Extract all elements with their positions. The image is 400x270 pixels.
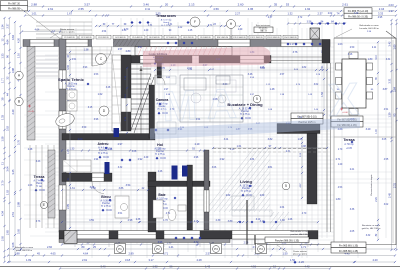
bath doors bbox=[172, 166, 178, 180]
svg-text:4.20: 4.20 bbox=[372, 258, 378, 262]
grid bubble living bbox=[253, 95, 261, 103]
svg-text:3.81: 3.81 bbox=[268, 167, 273, 169]
svg-text:1.41: 1.41 bbox=[168, 245, 174, 249]
svg-text:2.03: 2.03 bbox=[388, 3, 394, 7]
svg-text:M: M bbox=[161, 81, 198, 130]
west retaining wall bbox=[27, 47, 35, 141]
svg-text:4.51: 4.51 bbox=[72, 59, 77, 61]
svg-text:3.16: 3.16 bbox=[348, 54, 353, 56]
terasa mid line bbox=[334, 136, 396, 138]
svg-text:3.76: 3.76 bbox=[17, 139, 21, 145]
svg-text:2.65: 2.65 bbox=[6, 229, 10, 235]
svg-text:P2: P2 bbox=[156, 247, 160, 251]
svg-text:4.96: 4.96 bbox=[194, 157, 199, 159]
svg-text:3.08: 3.08 bbox=[132, 151, 137, 153]
svg-text:A: A bbox=[205, 79, 238, 128]
svg-text:±0.00: ±0.00 bbox=[39, 190, 45, 192]
right dim chain 2 bbox=[396, 20, 398, 250]
living north wall bbox=[277, 124, 320, 134]
svg-text:3.96: 3.96 bbox=[158, 241, 163, 244]
svg-text:987.9: 987.9 bbox=[260, 29, 267, 32]
svg-text:H: 2.75 m: H: 2.75 m bbox=[98, 153, 108, 155]
finish box top left 1 bbox=[1, 1, 28, 6]
svg-text:2.09: 2.09 bbox=[260, 195, 265, 197]
antreu door leaf bbox=[105, 162, 110, 174]
svg-text:1.32: 1.32 bbox=[287, 12, 293, 16]
watermark red stripe bbox=[143, 47, 271, 68]
svg-text:2.88: 2.88 bbox=[31, 3, 37, 7]
svg-text:3.33: 3.33 bbox=[378, 12, 384, 16]
svg-text:4.98: 4.98 bbox=[128, 219, 133, 222]
svg-text:2.88: 2.88 bbox=[14, 252, 20, 256]
tech-room east wall bbox=[121, 55, 131, 131]
svg-text:Birou: Birou bbox=[101, 195, 110, 199]
svg-text:2.19: 2.19 bbox=[195, 143, 200, 146]
column tab P3 bbox=[211, 244, 222, 254]
terasa glass wall bbox=[326, 63, 328, 232]
south inner dim chain bbox=[62, 221, 318, 223]
antreu closet bbox=[63, 160, 91, 172]
svg-text:F: F bbox=[194, 20, 196, 24]
camara shelves bbox=[157, 76, 176, 84]
office desk bbox=[115, 196, 129, 218]
svg-text:2.00: 2.00 bbox=[78, 138, 83, 141]
svg-text:4.15: 4.15 bbox=[194, 221, 199, 223]
svg-text:Fin 986.95: Fin 986.95 bbox=[8, 8, 20, 11]
svg-text:5: 5 bbox=[256, 97, 258, 101]
svg-text:2.51: 2.51 bbox=[11, 211, 15, 217]
svg-text:4.28: 4.28 bbox=[196, 258, 202, 262]
svg-text:1.20: 1.20 bbox=[338, 164, 343, 166]
grid bubble H top bbox=[230, 28, 232, 40]
svg-text:2.29: 2.29 bbox=[376, 197, 378, 202]
svg-text:2.61: 2.61 bbox=[48, 7, 54, 11]
svg-text:1.05: 1.05 bbox=[298, 138, 303, 141]
svg-text:H: 2.75 m: H: 2.75 m bbox=[241, 191, 251, 193]
svg-text:2.71: 2.71 bbox=[336, 158, 341, 161]
finish box top r bbox=[344, 8, 372, 13]
bottom secondary dim line bbox=[62, 244, 318, 246]
svg-text:3.89: 3.89 bbox=[228, 220, 233, 223]
svg-text:3.32: 3.32 bbox=[118, 167, 123, 169]
svg-text:-1.20: -1.20 bbox=[298, 260, 304, 264]
svg-text:1.50: 1.50 bbox=[321, 92, 324, 97]
svg-text:2.92: 2.92 bbox=[138, 158, 143, 161]
svg-text:2.82: 2.82 bbox=[226, 195, 231, 197]
kitchen dim chain bbox=[155, 69, 327, 71]
svg-text:Living: Living bbox=[240, 179, 252, 184]
east inner dim chain bbox=[301, 138, 303, 198]
svg-text:1.25: 1.25 bbox=[108, 149, 113, 151]
svg-text:3.05: 3.05 bbox=[382, 139, 387, 141]
top dimension chain 1 bbox=[25, 6, 396, 8]
svg-text:3.82: 3.82 bbox=[268, 138, 273, 141]
svg-text:3.29: 3.29 bbox=[366, 128, 371, 131]
svg-text:4.55: 4.55 bbox=[384, 159, 389, 161]
camara west wall bbox=[149, 85, 155, 138]
svg-text:3.48: 3.48 bbox=[106, 87, 111, 89]
svg-text:A: 7.44 mp: A: 7.44 mp bbox=[33, 179, 45, 182]
grid bubble A left bbox=[15, 71, 23, 79]
red level marks bbox=[28, 105, 343, 111]
svg-text:53: 53 bbox=[286, 3, 290, 7]
duct shaft bbox=[112, 55, 121, 131]
svg-text:3.02: 3.02 bbox=[384, 204, 389, 206]
svg-text:2.38: 2.38 bbox=[136, 219, 141, 221]
living sofa bbox=[232, 196, 254, 210]
svg-text:3.93: 3.93 bbox=[83, 67, 88, 69]
svg-text:4.64: 4.64 bbox=[35, 29, 40, 32]
svg-text:F11 1.100/1.20: F11 1.100/1.20 bbox=[234, 37, 246, 39]
east wall living bbox=[307, 124, 317, 205]
svg-text:F13 1.120/1.20: F13 1.120/1.20 bbox=[267, 37, 279, 39]
antreu south wall bbox=[62, 173, 112, 182]
svg-text:+0.45: +0.45 bbox=[28, 111, 34, 113]
svg-text:P3: P3 bbox=[214, 247, 218, 251]
stair dim chain bbox=[126, 68, 128, 133]
construction extension line lattice bbox=[61, 28, 63, 244]
svg-text:Perete exterior: Perete exterior bbox=[60, 28, 75, 31]
svg-text:Terasa: Terasa bbox=[34, 175, 45, 179]
column tab P1 bbox=[115, 244, 126, 254]
svg-text:Antreu: Antreu bbox=[98, 142, 109, 146]
svg-text:F6 1.50/1.20: F6 1.50/1.20 bbox=[149, 37, 159, 39]
washing machines bbox=[67, 90, 77, 100]
antreu door arc bbox=[92, 182, 104, 194]
leader diagonal topleft bbox=[20, 8, 62, 40]
svg-text:Parchet: Parchet bbox=[102, 202, 110, 205]
svg-text:1.77: 1.77 bbox=[1, 77, 5, 83]
office east wall bbox=[148, 172, 156, 232]
office dim chain bbox=[62, 189, 148, 191]
svg-text:3.62: 3.62 bbox=[314, 84, 319, 86]
svg-text:2.61: 2.61 bbox=[342, 3, 348, 7]
right dim chain 1 bbox=[391, 20, 393, 250]
svg-text:2.27: 2.27 bbox=[235, 12, 241, 16]
svg-text:1.94: 1.94 bbox=[94, 159, 99, 161]
svg-text:Descendente cu trepte: Descendente cu trepte bbox=[370, 174, 373, 196]
kitchen island bbox=[180, 75, 243, 122]
svg-text:Balustrada cu rama: Balustrada cu rama bbox=[15, 246, 34, 249]
svg-text:3.87: 3.87 bbox=[383, 88, 388, 91]
svg-text:2.29: 2.29 bbox=[156, 148, 161, 151]
staircase bbox=[131, 64, 154, 136]
finish box terasa 1 bbox=[331, 116, 363, 122]
svg-text:Balustrada cu rama: Balustrada cu rama bbox=[291, 230, 311, 233]
svg-text:1.70: 1.70 bbox=[163, 219, 168, 222]
svg-text:Baie: Baie bbox=[158, 193, 165, 197]
northeast corner wall bbox=[322, 40, 330, 64]
top dimension chain 2 bbox=[25, 10, 396, 12]
svg-text:3.70: 3.70 bbox=[1, 180, 5, 186]
svg-text:Scari exterioare: Scari exterioare bbox=[256, 24, 271, 27]
svg-text:1.67: 1.67 bbox=[67, 12, 73, 16]
svg-text:Perete exterior: Perete exterior bbox=[293, 250, 307, 253]
svg-text:Parchet 986.05(-1.35): Parchet 986.05(-1.35) bbox=[275, 239, 299, 242]
svg-text:1.48: 1.48 bbox=[270, 88, 275, 91]
top-right secondary dim line bbox=[288, 23, 345, 25]
svg-text:1.62: 1.62 bbox=[98, 93, 103, 96]
svg-text:gatit fix, HH 2.96 m: gatit fix, HH 2.96 m bbox=[362, 227, 381, 230]
south wall bbox=[59, 231, 318, 240]
svg-text:4.05: 4.05 bbox=[350, 231, 355, 233]
svg-text:1.00: 1.00 bbox=[376, 129, 378, 134]
svg-text:F7 1.60/1.20: F7 1.60/1.20 bbox=[166, 37, 176, 39]
svg-text:4.31: 4.31 bbox=[168, 24, 173, 26]
entrance door gap bbox=[92, 39, 113, 47]
svg-text:1.45: 1.45 bbox=[188, 30, 193, 32]
svg-text:A: 16.00 mp: A: 16.00 mp bbox=[65, 82, 78, 85]
svg-text:5: 5 bbox=[285, 184, 287, 188]
svg-text:4.53: 4.53 bbox=[338, 187, 343, 189]
svg-text:1.84: 1.84 bbox=[250, 159, 255, 161]
svg-text:F4 1.30/1.20: F4 1.30/1.20 bbox=[115, 37, 125, 39]
north wall kitchen east bbox=[199, 56, 271, 64]
svg-text:2.97: 2.97 bbox=[118, 143, 123, 146]
svg-text:1.60: 1.60 bbox=[280, 219, 285, 222]
left dim chain 2 bbox=[9, 18, 11, 262]
svg-text:3.49: 3.49 bbox=[67, 65, 70, 70]
svg-text:3.96: 3.96 bbox=[94, 119, 99, 121]
svg-text:4.51: 4.51 bbox=[384, 109, 389, 111]
svg-text:1.70: 1.70 bbox=[338, 149, 343, 151]
svg-text:din piatra: din piatra bbox=[259, 27, 268, 30]
grid bubble E terrace bbox=[40, 201, 47, 208]
svg-text:2.02: 2.02 bbox=[328, 13, 333, 15]
svg-text:2.50: 2.50 bbox=[350, 47, 355, 49]
svg-text:4.95: 4.95 bbox=[378, 17, 383, 19]
svg-text:±0.00: ±0.00 bbox=[103, 157, 109, 159]
southwest corner column bbox=[64, 231, 77, 244]
svg-text:1.97: 1.97 bbox=[388, 9, 394, 13]
duct ladder bbox=[112, 60, 121, 123]
svg-text:1.17: 1.17 bbox=[290, 43, 295, 46]
bottom partial dim chain 4 bbox=[60, 268, 330, 270]
svg-text:1.92: 1.92 bbox=[305, 7, 311, 11]
living hatched ceiling-void zone bbox=[204, 148, 289, 236]
svg-text:2.21: 2.21 bbox=[350, 169, 355, 171]
svg-text:2.54: 2.54 bbox=[244, 242, 249, 245]
svg-text:2.39: 2.39 bbox=[216, 219, 221, 222]
svg-text:Parchet: Parchet bbox=[241, 110, 249, 113]
terasa acces steps bbox=[36, 22, 92, 38]
svg-text:1.62: 1.62 bbox=[91, 187, 96, 190]
column tab P2 bbox=[153, 244, 164, 254]
svg-text:3.36: 3.36 bbox=[350, 209, 355, 211]
finish box bottom r2 bbox=[331, 248, 366, 254]
left dim chain 1 bbox=[4, 18, 6, 262]
svg-text:F9 1.80/1.20: F9 1.80/1.20 bbox=[200, 37, 210, 39]
svg-text:2.55: 2.55 bbox=[78, 7, 84, 11]
svg-text:1.33: 1.33 bbox=[1, 114, 5, 120]
svg-text:4.71: 4.71 bbox=[166, 213, 171, 215]
terasa ne chamfer bbox=[386, 31, 396, 39]
svg-text:3.72: 3.72 bbox=[194, 241, 199, 244]
svg-text:2.11: 2.11 bbox=[372, 47, 377, 49]
svg-text:35: 35 bbox=[274, 3, 278, 7]
svg-text:F14 1.130/1.20: F14 1.130/1.20 bbox=[284, 37, 296, 39]
svg-text:3.43: 3.43 bbox=[36, 161, 41, 163]
svg-text:2.13: 2.13 bbox=[189, 3, 195, 7]
hall east wall bbox=[204, 150, 209, 230]
svg-text:2.37: 2.37 bbox=[6, 23, 10, 29]
svg-text:4.54: 4.54 bbox=[102, 31, 107, 33]
svg-text:placat cu piatra: placat cu piatra bbox=[293, 253, 308, 256]
svg-text:4.95: 4.95 bbox=[248, 7, 254, 11]
svg-text:4.10: 4.10 bbox=[376, 55, 378, 60]
svg-text:2.29: 2.29 bbox=[11, 109, 15, 115]
svg-text:3.31: 3.31 bbox=[386, 59, 391, 61]
svg-text:Balustrada cu rama: Balustrada cu rama bbox=[360, 24, 380, 27]
svg-text:Terasa acces: Terasa acces bbox=[156, 14, 176, 18]
bottom dim chain 3 bbox=[8, 261, 395, 263]
kitchen counter appliances bbox=[184, 78, 206, 90]
top dimension chain 3 bbox=[25, 15, 396, 17]
finish box top r2 bbox=[344, 13, 372, 18]
upper mid dim line bbox=[96, 25, 240, 27]
svg-text:2.45: 2.45 bbox=[388, 192, 392, 198]
living south marks bbox=[239, 221, 242, 224]
svg-text:3.97: 3.97 bbox=[138, 47, 143, 49]
svg-text:2.91: 2.91 bbox=[82, 258, 88, 262]
svg-text:1.03: 1.03 bbox=[338, 43, 343, 46]
svg-text:3.11: 3.11 bbox=[145, 7, 151, 11]
right terasa dim chain bbox=[377, 42, 379, 240]
svg-text:1.34: 1.34 bbox=[1, 24, 5, 30]
svg-text:F3 1.20/1.20: F3 1.20/1.20 bbox=[98, 37, 108, 39]
svg-text:2.48: 2.48 bbox=[28, 149, 33, 151]
tech counter bbox=[66, 53, 112, 55]
svg-text:2.70: 2.70 bbox=[124, 29, 129, 31]
svg-text:1.22: 1.22 bbox=[178, 27, 183, 29]
svg-text:3.10: 3.10 bbox=[256, 219, 261, 221]
svg-text:H: var: H: var bbox=[36, 185, 42, 188]
top-left secondary dim line bbox=[22, 31, 60, 33]
svg-text:2.05: 2.05 bbox=[1, 235, 5, 241]
ne column bbox=[310, 28, 320, 39]
north glass wall bbox=[271, 56, 327, 58]
svg-text:4.70: 4.70 bbox=[302, 213, 307, 215]
svg-text:3.72: 3.72 bbox=[298, 17, 303, 19]
svg-text:1.50: 1.50 bbox=[282, 252, 288, 256]
svg-text:4.64: 4.64 bbox=[6, 39, 10, 45]
svg-text:4.59: 4.59 bbox=[213, 7, 219, 11]
svg-text:3.46: 3.46 bbox=[248, 73, 253, 76]
svg-text:2.92: 2.92 bbox=[220, 158, 225, 161]
svg-text:1.63: 1.63 bbox=[28, 185, 33, 187]
svg-text:H: 2.75 m: H: 2.75 m bbox=[240, 114, 250, 116]
svg-text:F2 1.10/1.20: F2 1.10/1.20 bbox=[81, 37, 91, 39]
svg-text:3.15: 3.15 bbox=[88, 107, 93, 109]
svg-text:Hol: Hol bbox=[157, 143, 163, 147]
svg-text:1.38: 1.38 bbox=[84, 49, 89, 52]
south wall window extension ticks bbox=[75, 240, 308, 247]
finish box mid top bbox=[254, 27, 273, 33]
living dim chain bbox=[213, 147, 327, 149]
svg-text:4.64: 4.64 bbox=[83, 252, 89, 256]
watermark blue stripe bbox=[150, 118, 360, 140]
svg-text:2.82: 2.82 bbox=[302, 67, 307, 69]
svg-text:3.51: 3.51 bbox=[118, 213, 123, 215]
svg-text:±0.00: ±0.00 bbox=[245, 118, 251, 120]
svg-text:A: 6.72 mp: A: 6.72 mp bbox=[161, 18, 172, 21]
svg-text:3.13: 3.13 bbox=[230, 149, 235, 151]
svg-text:3.50: 3.50 bbox=[82, 127, 87, 129]
svg-text:4.64: 4.64 bbox=[11, 34, 15, 40]
svg-text:4.65: 4.65 bbox=[50, 252, 56, 256]
svg-text:3.25: 3.25 bbox=[11, 169, 15, 175]
svg-text:A: 56 mp: A: 56 mp bbox=[344, 143, 354, 146]
svg-text:piatra, HH 0.90 m: piatra, HH 0.90 m bbox=[16, 249, 33, 252]
duct door bbox=[114, 128, 120, 137]
svg-text:3.17: 3.17 bbox=[148, 258, 154, 262]
north wall kitchen west bbox=[121, 56, 192, 64]
svg-text:2.89: 2.89 bbox=[128, 252, 134, 256]
svg-text:3.54: 3.54 bbox=[126, 184, 131, 187]
svg-text:Terasa: Terasa bbox=[343, 138, 355, 142]
window tag row bbox=[62, 35, 77, 39]
hall dim chain bbox=[62, 150, 204, 152]
svg-text:F8 1.70/1.20: F8 1.70/1.20 bbox=[183, 37, 193, 39]
svg-text:3.88: 3.88 bbox=[11, 67, 15, 73]
svg-text:Spatiu Tehnic: Spatiu Tehnic bbox=[58, 77, 85, 82]
svg-text:2.60: 2.60 bbox=[238, 3, 244, 7]
svg-text:Fin 965.80(-1.45): Fin 965.80(-1.45) bbox=[339, 250, 358, 253]
bath fixtures bbox=[153, 200, 163, 218]
left dim chain 3 bbox=[14, 22, 16, 255]
svg-text:3.32: 3.32 bbox=[366, 235, 371, 237]
svg-text:parchet, HH 0.90 m: parchet, HH 0.90 m bbox=[291, 233, 310, 236]
boiler oval bbox=[54, 111, 76, 128]
svg-text:3.46: 3.46 bbox=[143, 3, 149, 7]
svg-text:3.05: 3.05 bbox=[17, 228, 21, 234]
svg-text:±0.00: ±0.00 bbox=[106, 210, 112, 212]
svg-text:1.10: 1.10 bbox=[17, 52, 21, 58]
svg-text:Fin 986.50 (-0.35): Fin 986.50 (-0.35) bbox=[348, 15, 368, 18]
svg-text:2.57: 2.57 bbox=[118, 49, 123, 51]
level marker diamonds bbox=[87, 83, 90, 86]
grid bubble living2 bbox=[282, 182, 290, 190]
svg-text:3.18: 3.18 bbox=[125, 258, 131, 262]
svg-text:F1 1.00/1.20: F1 1.00/1.20 bbox=[64, 37, 74, 39]
svg-text:2.60: 2.60 bbox=[47, 245, 53, 249]
svg-text:1.20: 1.20 bbox=[144, 30, 149, 32]
svg-text:F10 1.90/1.20: F10 1.90/1.20 bbox=[217, 37, 228, 39]
finish box kitchen 1 bbox=[291, 113, 323, 119]
svg-text:1.33: 1.33 bbox=[70, 148, 75, 151]
svg-text:F12 1.110/1.20: F12 1.110/1.20 bbox=[251, 37, 263, 39]
finish box bottom 1 bbox=[265, 237, 309, 243]
svg-text:1.71: 1.71 bbox=[301, 245, 307, 249]
svg-text:Lucarda, HH 0.90 m: Lucarda, HH 0.90 m bbox=[359, 27, 379, 30]
svg-text:1.80: 1.80 bbox=[336, 198, 341, 201]
svg-text:1.99: 1.99 bbox=[26, 258, 32, 262]
svg-text:1.33: 1.33 bbox=[1, 53, 5, 59]
svg-text:2.53: 2.53 bbox=[94, 74, 99, 76]
finish box kitchen 2 bbox=[291, 119, 323, 125]
svg-text:4.57: 4.57 bbox=[280, 74, 285, 76]
svg-text:4.59: 4.59 bbox=[89, 219, 94, 222]
svg-text:1.74: 1.74 bbox=[67, 149, 70, 154]
svg-text:2.88: 2.88 bbox=[17, 201, 21, 207]
svg-text:3.24: 3.24 bbox=[224, 139, 229, 141]
svg-text:3.73: 3.73 bbox=[36, 221, 41, 223]
svg-text:Parchet: Parchet bbox=[242, 187, 250, 190]
svg-text:4.20: 4.20 bbox=[17, 37, 21, 43]
north wall west wing bbox=[23, 40, 330, 47]
property line bottom bbox=[0, 266, 400, 268]
svg-text:20: 20 bbox=[165, 3, 169, 7]
